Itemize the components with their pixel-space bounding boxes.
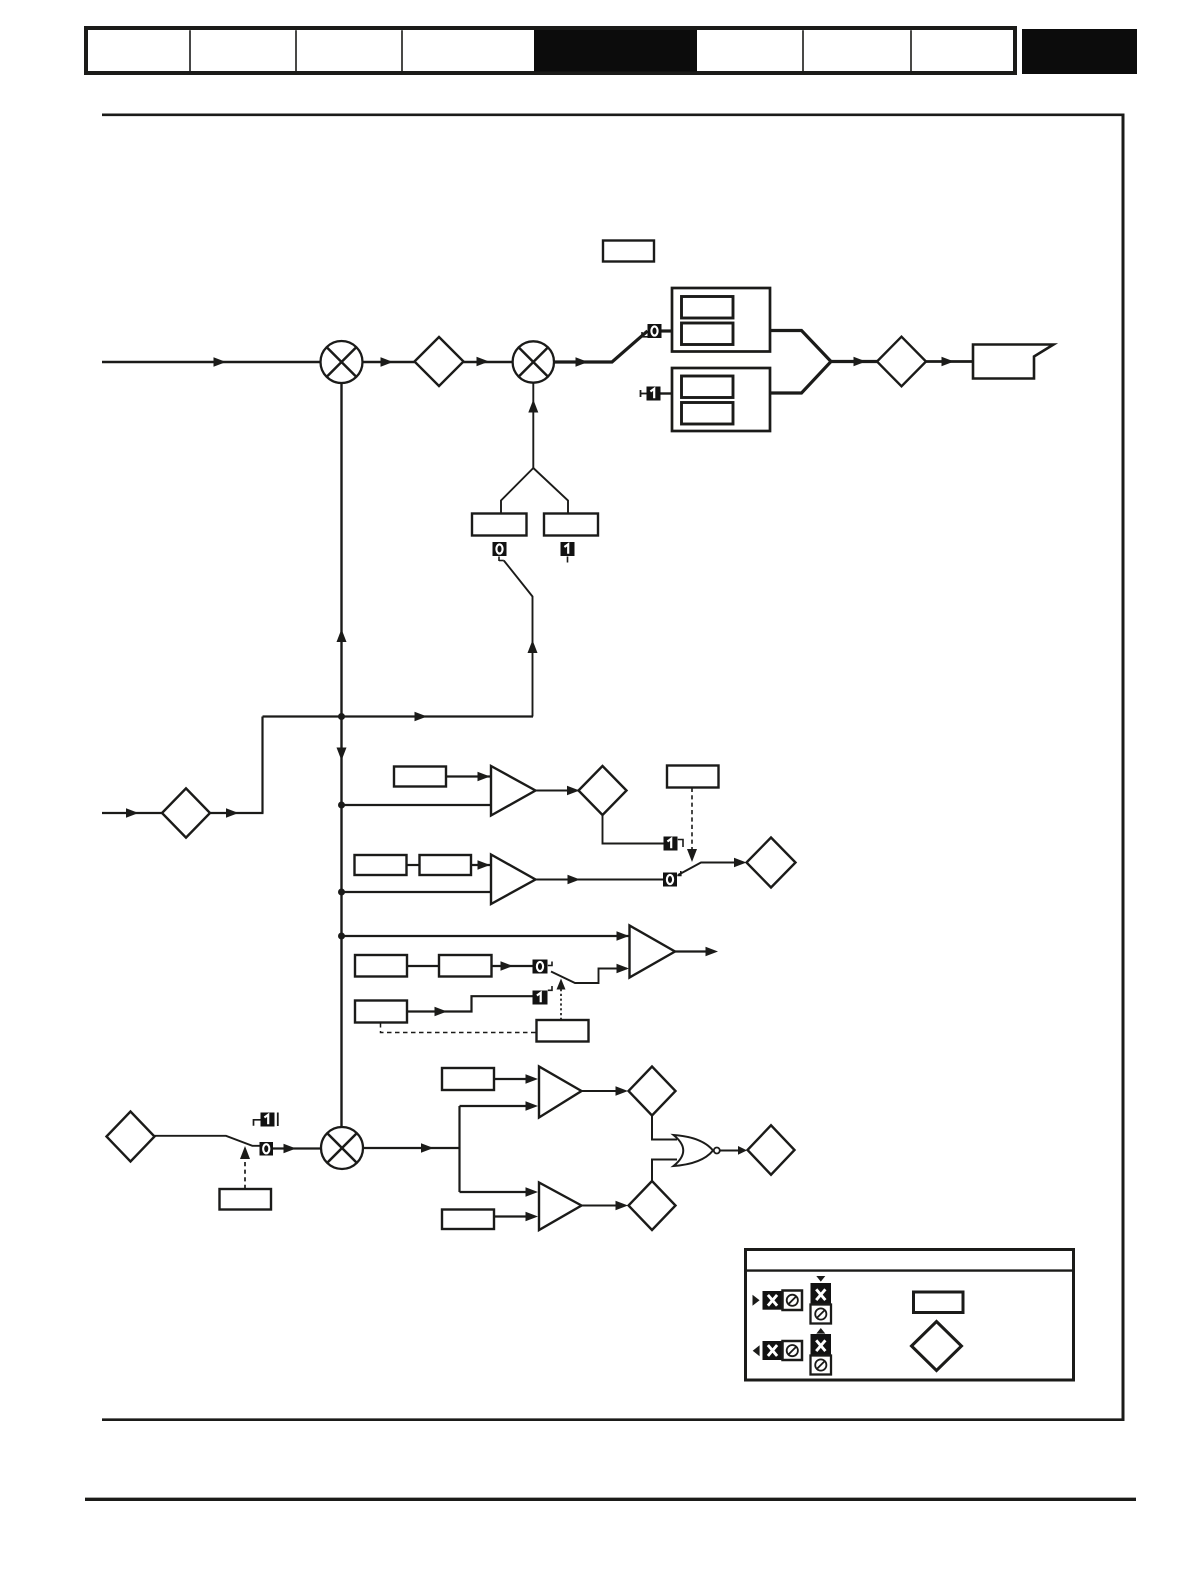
switch SW2 contact 1 <box>561 542 575 563</box>
G1 inverter bubble <box>714 1148 720 1154</box>
parameter box P8 <box>355 955 407 977</box>
wire SW1-1 to ramp block B2 <box>661 392 673 394</box>
parameter diamond D1 <box>415 337 464 386</box>
parameter diamond D5 <box>747 838 796 888</box>
wire U1 to diamond D4 <box>536 790 579 792</box>
parameter diamond D4 <box>579 766 627 815</box>
legend parameter diamond symbol <box>912 1322 962 1371</box>
bus vertical wire <box>340 383 342 1127</box>
control wire P5 to SW3 (dashed) <box>691 788 693 852</box>
comparator U5 <box>539 1183 582 1231</box>
wire merge to D2 <box>831 360 878 363</box>
diagram frame right edge <box>1122 114 1125 1421</box>
legend box <box>746 1250 1074 1381</box>
wire G1 to diamond D9 <box>720 1150 738 1152</box>
amplifier U3 <box>630 926 676 978</box>
comparator U1 <box>491 766 536 816</box>
wire D1 to M2 <box>464 361 514 363</box>
wire junction row <box>263 715 534 717</box>
bus arrow up to M1 <box>337 629 347 642</box>
wire P10 to SW4 contact 1 <box>407 996 533 1011</box>
parameter diamond D8 <box>629 1181 676 1230</box>
wire fork to U4 <box>460 1105 528 1107</box>
legend write slash cell <box>811 1305 832 1324</box>
switch SW5 contact 0 <box>260 1142 274 1156</box>
junction node J1 <box>338 713 345 720</box>
wire SW3 arm to diamond D5 <box>678 863 737 876</box>
corner tab (filled) <box>1022 29 1137 74</box>
parameter box P4 <box>394 767 446 787</box>
wire diamond D3 output <box>210 812 264 814</box>
selector fork right branch <box>533 468 568 514</box>
legend input X cell <box>763 1291 783 1310</box>
wire P13 to U4 <box>494 1078 527 1080</box>
wire bus to U2 <box>342 891 491 893</box>
wire bus to U1 <box>342 804 491 806</box>
switch SW1 contact 1 <box>641 387 661 401</box>
diagram frame top edge <box>102 113 1125 116</box>
switch SW3 contact 1 <box>664 837 684 851</box>
selector parameter box P3 <box>544 514 598 536</box>
wire selector to M2 <box>532 383 534 468</box>
wire D7 to OR gate G1 <box>652 1116 677 1140</box>
comparator U4 <box>539 1067 582 1118</box>
wire P9 to switch SW4 contact 0 <box>492 965 533 967</box>
wire D2 to output terminal <box>926 360 973 363</box>
wire P7 to comparator U2 <box>471 864 491 866</box>
parameter box P7 <box>420 855 472 875</box>
parameter diamond D2 <box>877 337 926 387</box>
switch SW5 contact 1 <box>254 1113 278 1127</box>
wire SW2 arm <box>504 561 533 717</box>
ramp block B2 <box>672 368 770 431</box>
legend header rule <box>746 1269 1074 1271</box>
switch SW2 contact 0 <box>493 542 507 561</box>
bus arrow down <box>337 748 347 761</box>
switch SW4 contact 1 <box>533 986 553 1005</box>
wire M1 to D1 <box>363 361 415 363</box>
wire main input <box>102 361 321 363</box>
control wire P10 to P11 (dashed) <box>381 1023 537 1033</box>
ramp block B1 <box>672 288 770 352</box>
legend read slash cell <box>811 1356 832 1375</box>
output terminal flag T1 <box>973 345 1054 379</box>
control wire P12 to SW5 (dashed) <box>244 1155 246 1189</box>
legend write-mode marker (down) <box>816 1276 825 1282</box>
multiplier M1 <box>321 341 363 383</box>
parameter box P6 <box>355 855 407 875</box>
wire D4 to switch SW3 contact 1 <box>603 815 664 844</box>
junction node J2 <box>338 802 345 809</box>
wire D8 to OR gate G1 <box>652 1160 677 1182</box>
wire SW1-0 to ramp block B1 <box>662 329 673 332</box>
wire D6 to switch SW5 <box>155 1136 260 1146</box>
diagram frame bottom edge <box>102 1418 1125 1421</box>
wire B2 output <box>770 362 831 394</box>
wire P6 to P7 <box>407 864 420 866</box>
selector parameter box P2 <box>472 514 527 536</box>
wire P4 to comparator U1 <box>446 775 491 777</box>
wire bus to amplifier U3 <box>342 935 629 937</box>
legend read-mode marker (up) <box>816 1328 825 1334</box>
switch SW4 contact 0 <box>533 960 553 974</box>
control wire P11 to SW4 (dotted) <box>560 986 562 1020</box>
control parameter box P11 <box>537 1020 589 1042</box>
wire P8 to P9 <box>407 965 439 967</box>
wire M2 to switch SW1 <box>554 331 648 362</box>
switch SW1 contact 0 <box>642 324 662 338</box>
wire U2 to SW3 contact 0 <box>536 879 664 881</box>
wire B1 output <box>770 331 831 362</box>
legend input arrow <box>753 1295 760 1306</box>
junction node J3 <box>338 889 345 896</box>
footer rule <box>85 1498 1136 1501</box>
multiplier M2 <box>513 341 554 382</box>
wire left riser <box>261 717 263 814</box>
parameter diamond D6 <box>107 1112 155 1162</box>
wire U3 output <box>675 950 706 952</box>
parameter box P1 (top) <box>603 241 654 262</box>
wire P14 to U5 <box>494 1215 527 1217</box>
legend write X cell <box>811 1283 832 1305</box>
active tab (filled) <box>534 30 697 72</box>
legend output arrow <box>753 1345 760 1356</box>
parameter box P10 <box>355 1001 407 1023</box>
control parameter box P12 <box>220 1189 272 1210</box>
header tab bar <box>86 28 1015 73</box>
wire U4 to diamond D7 <box>582 1090 618 1092</box>
legend parameter box symbol <box>914 1292 964 1313</box>
parameter diamond D9 <box>748 1125 795 1174</box>
legend read X cell <box>811 1334 832 1356</box>
selector fork left branch <box>501 468 533 514</box>
wire M3 output <box>363 1147 460 1149</box>
comparator U2 <box>491 855 536 905</box>
legend input slash cell <box>783 1291 803 1311</box>
wire SW4 arm to U3 <box>551 969 627 984</box>
wire D3 input <box>102 812 162 814</box>
switch SW3 contact 0 <box>663 871 681 887</box>
multiplier M3 <box>321 1127 363 1169</box>
wire output fork vertical <box>458 1106 460 1192</box>
legend output slash cell <box>783 1341 803 1360</box>
junction node J4 <box>338 933 345 940</box>
parameter box P9 <box>439 955 492 977</box>
parameter diamond D7 <box>629 1067 676 1116</box>
legend output X cell <box>763 1341 783 1360</box>
wire U5 to diamond D8 <box>582 1205 618 1207</box>
parameter box P14 <box>442 1210 494 1230</box>
wire fork to U5 <box>460 1191 528 1193</box>
parameter diamond D3 <box>162 788 210 837</box>
OR gate G1 <box>674 1135 714 1166</box>
parameter box P13 <box>442 1068 494 1090</box>
control parameter box P5 <box>667 766 719 788</box>
wire SW5 to M3 <box>273 1147 322 1149</box>
